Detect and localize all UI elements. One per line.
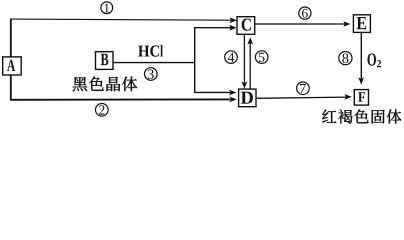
wire 3a: junction to C xyxy=(194,27,232,29)
label: red-brown solid (hong-he-se-gu-ti) xyxy=(322,110,336,123)
label circle 7 xyxy=(297,82,310,95)
label HCl xyxy=(138,46,149,57)
wire 2: bottom line from A to D xyxy=(10,98,231,100)
arrow toward F top (wire 8) xyxy=(358,77,364,84)
arrow toward C bottom (wire 5) xyxy=(247,37,253,44)
wire 1: top line from A to C xyxy=(10,19,231,20)
box A xyxy=(3,57,22,75)
wire 6: C to E xyxy=(255,23,345,25)
wire 7: D to F xyxy=(256,97,347,98)
wire 8: E down to F xyxy=(360,32,362,78)
wire 3b: junction to D xyxy=(194,91,231,93)
label circle 5 xyxy=(255,51,268,64)
label circle 4 xyxy=(225,51,238,64)
label: black crystal (hei-se-jing-ti) xyxy=(73,77,88,91)
label circle 8 xyxy=(339,52,352,65)
box D xyxy=(239,89,256,107)
arrow into D left (wire 2) xyxy=(229,97,236,103)
wire: junction vertical xyxy=(194,28,196,93)
box F xyxy=(354,90,368,106)
box C xyxy=(237,17,255,35)
label circle 6 xyxy=(299,7,311,19)
label O2 xyxy=(368,53,376,65)
arrow into E left (wire 6) xyxy=(343,21,350,27)
wire 5: D up to C xyxy=(249,43,251,89)
arrow into C left lower (wire 3a) xyxy=(229,25,236,31)
arrow into D left upper (wire 3b) xyxy=(229,90,236,96)
label circle 3 xyxy=(145,68,158,81)
box B xyxy=(96,52,114,70)
arrow into F left (wire 7) xyxy=(344,94,351,100)
wire: vertical bus from A xyxy=(10,19,12,100)
wire: B to junction (HCl) xyxy=(113,62,195,64)
wire 4: C down to D xyxy=(243,34,245,83)
label circle 1 xyxy=(101,2,113,14)
label circle 2 xyxy=(96,104,109,117)
box E xyxy=(353,15,370,33)
arrow into D top (wire 4) xyxy=(242,81,248,88)
arrow into C left (wire 1) xyxy=(230,17,237,23)
